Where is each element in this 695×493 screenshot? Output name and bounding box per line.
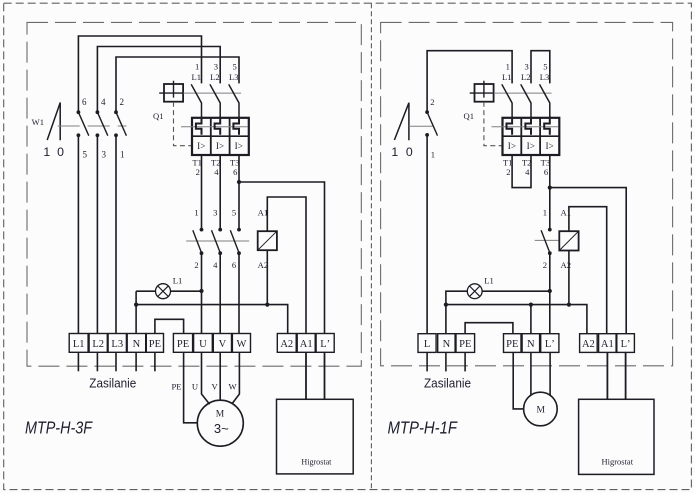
breaker Q1 input blade pole 2 (210, 84, 220, 118)
wire T3 down (right) (549, 155, 551, 230)
wire switch pole 2 to terminal strip (96, 135, 98, 333)
svg-text:4: 4 (101, 97, 106, 107)
wire coil A1 to terminal A1 (267, 197, 306, 334)
contactor pole 3 top terminal 5 (237, 228, 241, 232)
wire contactor to L' motor terminal (549, 253, 551, 334)
svg-text:6: 6 (82, 97, 87, 107)
wire lamp left (right panel) (446, 291, 467, 334)
terminal V (left motor strip) (213, 334, 231, 353)
svg-text:PE: PE (177, 339, 189, 350)
contactor top terminal 1 (right) (548, 228, 552, 232)
wire coil A2 down (right) (568, 251, 570, 305)
svg-text:L1: L1 (191, 72, 201, 82)
svg-text:2: 2 (430, 97, 434, 107)
breaker Q1 operator box (164, 84, 183, 102)
wire T3 junction to L' terminal (right) (550, 188, 626, 334)
wire coil A1 to terminal A1 (right) (569, 207, 607, 334)
wire supply stub (135, 352, 137, 371)
switch W1 pole 2 bottom terminal 3 (96, 133, 100, 137)
junction N rail start (right) (444, 303, 448, 307)
breaker input blade pole 3 (right) (540, 84, 550, 118)
svg-text:L3: L3 (540, 72, 550, 82)
contactor bottom terminal 2 (right) (548, 251, 552, 255)
terminal L&#700; (right control strip) (617, 334, 635, 353)
svg-text:2: 2 (120, 97, 125, 107)
switch W1 pole 3 blade (116, 112, 126, 136)
contactor blade (right) (541, 230, 550, 253)
breaker Q1 input blade pole 3 (229, 84, 239, 118)
junction coil A2 on rail (265, 303, 269, 307)
contactor coil box (right) (559, 231, 578, 250)
wire L' terminal to hygrostat (324, 352, 326, 399)
switch W1 pole 3 top terminal 2 (114, 110, 118, 114)
svg-text:4: 4 (525, 167, 530, 177)
svg-text:W: W (229, 382, 238, 392)
wire switch pole 1 to terminal strip (77, 135, 79, 333)
svg-text:W1: W1 (32, 117, 44, 127)
contactor linkage line (right) (535, 239, 559, 241)
wire L' to motor (right) (549, 352, 551, 395)
terminal U (left motor strip) (194, 334, 213, 353)
terminal PE (left supply strip) (146, 334, 163, 353)
contactor pole 1 top terminal 1 (200, 228, 204, 232)
terminal PE (right motor strip) (504, 334, 522, 353)
switch W1 pole 2 blade (97, 112, 107, 136)
svg-text:Q1: Q1 (463, 111, 474, 121)
terminal N (left supply strip) (127, 334, 146, 353)
wire supply stub (77, 352, 79, 371)
breaker thermal element pole 1 (right) (507, 119, 513, 135)
wire switch pole 3 to terminal strip (115, 135, 117, 333)
svg-text:M: M (536, 406, 545, 416)
breaker thermal element pole 3 (right) (544, 119, 550, 135)
svg-text:PE: PE (506, 339, 518, 350)
terminal N (right supply strip) (438, 334, 455, 353)
svg-text:3: 3 (213, 207, 217, 217)
breaker Q1 pole dividers (211, 118, 230, 155)
svg-text:Lʼ: Lʼ (545, 339, 555, 350)
terminal L2 (left supply strip) (89, 334, 107, 353)
terminal N (right motor strip) (522, 334, 540, 353)
svg-text:2: 2 (543, 260, 547, 270)
svg-text:2: 2 (194, 260, 198, 270)
breaker Q1 trip link dashed (right) (484, 102, 503, 146)
contactor pole 2 top terminal 3 (218, 228, 222, 232)
svg-text:5: 5 (233, 61, 237, 71)
terminal A2 (left control strip) (277, 334, 296, 353)
wire PE to motor (right) (513, 352, 524, 409)
svg-text:I>: I> (508, 141, 516, 151)
wire supply stub (96, 352, 98, 371)
svg-text:Higrostat: Higrostat (301, 456, 332, 466)
svg-text:L3: L3 (229, 72, 239, 82)
breaker Q1 input blade pole 1 (191, 84, 201, 118)
svg-text:6: 6 (233, 167, 238, 177)
motor M (right) (524, 392, 558, 426)
wire PE jumper group1 to group2 (right) (465, 323, 513, 334)
svg-text:I>: I> (545, 141, 553, 151)
svg-text:M: M (216, 410, 225, 420)
junction N / A2 rail (134, 303, 138, 307)
svg-text:PE: PE (171, 382, 181, 392)
svg-text:U: U (199, 339, 207, 350)
svg-text:0: 0 (406, 145, 413, 159)
svg-text:I>: I> (527, 141, 535, 151)
svg-text:MTP-H-3F: MTP-H-3F (25, 418, 93, 438)
breaker Q1 internal linkage (181, 126, 248, 128)
junction on T3 wire (right) (548, 186, 552, 190)
svg-text:5: 5 (232, 207, 236, 217)
svg-text:Q1: Q1 (153, 111, 164, 121)
wire A1 terminal to hygrostat (305, 352, 307, 399)
breaker Q1 operator box (right) (475, 84, 494, 102)
svg-text:I>: I> (216, 141, 224, 151)
wire jumper input 3 to 5 (531, 51, 550, 84)
svg-text:L1: L1 (484, 275, 494, 285)
svg-text:W: W (236, 339, 246, 350)
wire V to motor (219, 352, 221, 400)
wire feeder rail L3 (116, 57, 239, 112)
wire contactor pole 2 to terminal strip (219, 253, 221, 333)
breaker Q1 pole dividers (right) (521, 118, 540, 155)
switch linkage line (right) (409, 125, 433, 127)
svg-text:5: 5 (543, 61, 547, 71)
svg-text:1: 1 (391, 145, 398, 159)
junction motor N drop (529, 303, 533, 307)
terminal L (right supply strip) (418, 334, 436, 353)
svg-text:I>: I> (235, 141, 243, 151)
svg-text:4: 4 (214, 167, 219, 177)
svg-text:Zasilanie: Zasilanie (89, 376, 136, 390)
wire A1 terminal to hygrostat (right) (606, 352, 608, 399)
svg-text:A2: A2 (582, 339, 595, 350)
contactor coil diagonal (258, 231, 277, 250)
terminal PE (left motor strip) (173, 334, 192, 353)
switch W1 linkage line (58, 125, 127, 127)
breaker Q1 operator-to-blades linkage (183, 92, 241, 94)
lamp L1 (right) (467, 284, 482, 299)
wire feeder rail L1 (78, 36, 201, 112)
wire T3 junction to L' terminal (239, 182, 325, 334)
svg-text:1: 1 (120, 150, 125, 160)
breaker Q1 body (192, 118, 249, 155)
panel divider dashed line (370, 3, 372, 489)
breaker Q1 internal linkage (right) (492, 126, 559, 128)
wire supply stub (right) (426, 352, 428, 371)
contactor pole 2 bottom terminal 4 (218, 251, 222, 255)
breaker input blade pole 1 (right) (502, 84, 512, 118)
svg-text:4: 4 (213, 260, 218, 270)
svg-text:L2: L2 (92, 339, 104, 350)
wire Q1 T2 to contactor (219, 155, 221, 230)
wire L' terminal to hygrostat (right) (625, 352, 627, 399)
wire PE to motor (184, 352, 197, 423)
svg-text:1: 1 (43, 145, 50, 159)
wire contactor pole 3 to terminal strip (238, 253, 240, 333)
svg-text:PE: PE (149, 339, 161, 350)
switch W1 pole 1 blade (78, 112, 88, 136)
wire supply stub (154, 352, 156, 371)
terminal A1 (left control strip) (297, 334, 315, 353)
wire PE jumper group1 to group2 (155, 319, 184, 333)
svg-text:N: N (133, 339, 141, 350)
switch pole blade (right) (427, 112, 437, 136)
svg-text:3: 3 (525, 61, 529, 71)
breaker Q1 operator trip link (dashed) (174, 102, 193, 146)
left panel dashed enclosure (27, 22, 361, 366)
wire supply stub (115, 352, 117, 371)
switch W1 pole 3 bottom terminal 1 (114, 133, 118, 137)
svg-text:2: 2 (196, 167, 200, 177)
wire U to motor (202, 352, 210, 404)
svg-text:V: V (219, 339, 227, 350)
svg-text:A2: A2 (280, 339, 293, 350)
wire lamp right to phase U (171, 290, 202, 292)
wire contactor pole 1 to terminal strip (201, 253, 203, 333)
svg-text:Lʼ: Lʼ (621, 339, 631, 350)
junction coil A2 on N rail (right) (567, 303, 571, 307)
contactor pole 1 bottom terminal 2 (200, 251, 204, 255)
wire Q1 T1 to contactor (201, 155, 203, 230)
svg-text:PE: PE (459, 339, 471, 350)
lamp L1 (156, 284, 171, 299)
right panel dashed enclosure (381, 22, 673, 365)
wire N rail to motor N terminal (530, 305, 532, 334)
svg-text:3: 3 (214, 61, 218, 71)
breaker Q1 body (right) (503, 118, 560, 155)
svg-text:5: 5 (82, 150, 87, 160)
svg-text:Zasilanie: Zasilanie (424, 376, 471, 390)
breaker Q1 row divider (192, 135, 249, 137)
svg-text:L2: L2 (521, 72, 531, 82)
hygrostat box (right) (579, 399, 654, 474)
svg-text:2: 2 (506, 167, 510, 177)
svg-text:1: 1 (543, 207, 547, 217)
contactor pole 3 bottom terminal 6 (237, 251, 241, 255)
wire Q1 T3 to contactor (238, 155, 240, 230)
junction lamp on U phase (199, 289, 203, 293)
junction on T3 wire (237, 180, 241, 184)
svg-text:N: N (527, 339, 535, 350)
svg-text:Lʼ: Lʼ (320, 339, 330, 350)
terminal L3 (left supply strip) (108, 334, 126, 353)
contactor pole 2 blade (212, 230, 221, 253)
wire coil A2 down (266, 250, 268, 304)
breaker Q1 thermal element pole 1 (196, 119, 202, 135)
terminal PE (right supply strip) (456, 334, 475, 353)
contactor coil diagonal (right) (559, 231, 578, 250)
svg-text:1: 1 (431, 150, 435, 160)
breaker Q1 thermal element pole 2 (215, 119, 221, 135)
hygrostat box (left) (277, 399, 354, 474)
wire jumper output 2 to 4 (512, 155, 531, 188)
contactor linkage line (186, 240, 249, 242)
breaker Q1 operator cross (right) (470, 81, 494, 98)
terminal L&#700; (left control strip) (316, 334, 334, 353)
switch actuator handle (right) (394, 103, 409, 141)
breaker Q1 operator cross (159, 81, 183, 98)
svg-text:A1: A1 (601, 339, 614, 350)
terminal A2 (right control strip) (580, 334, 598, 353)
wire feeder L to breaker (427, 51, 512, 112)
switch W1 pole 1 top terminal 6 (77, 110, 81, 114)
switch W1 pole 1 bottom terminal 5 (77, 133, 81, 137)
switch pole bottom terminal 1 (right) (425, 133, 429, 137)
wire W to motor (232, 352, 239, 403)
contactor coil box (258, 231, 277, 250)
breaker Q1 row divider (right) (503, 135, 560, 137)
breaker Q1 thermal element pole 3 (233, 119, 239, 135)
svg-text:6: 6 (232, 260, 237, 270)
svg-text:1: 1 (195, 61, 199, 71)
contactor pole 1 blade (193, 230, 202, 253)
terminal L&#700; (right motor strip) (541, 334, 559, 353)
svg-text:U: U (192, 382, 199, 392)
svg-text:MTP-H-1F: MTP-H-1F (388, 418, 459, 438)
svg-text:N: N (443, 339, 451, 350)
wire A2 rail (136, 305, 288, 334)
wire feeder rail L2 (97, 47, 220, 113)
svg-text:A1: A1 (300, 339, 313, 350)
svg-text:3~: 3~ (214, 421, 229, 436)
terminal A1 (right control strip) (599, 334, 617, 353)
contactor pole 3 blade (230, 230, 239, 253)
svg-text:L2: L2 (210, 72, 220, 82)
svg-text:L1: L1 (502, 72, 512, 82)
breaker Q1 operator-to-blades linkage (right) (494, 92, 552, 94)
motor M 3~ (left) (197, 400, 243, 446)
breaker input blade pole 2 (right) (521, 84, 531, 118)
svg-text:I>: I> (197, 141, 205, 151)
terminal W (left motor strip) (232, 334, 250, 353)
wire supply stub (right) (445, 352, 447, 371)
switch W1 pole 2 top terminal 4 (96, 110, 100, 114)
svg-text:L1: L1 (73, 339, 85, 350)
breaker thermal element pole 2 (right) (525, 119, 531, 135)
svg-text:6: 6 (544, 167, 549, 177)
svg-text:L: L (424, 339, 430, 350)
wire switch to L terminal (426, 135, 428, 334)
wire lamp left (136, 290, 155, 292)
svg-text:V: V (211, 382, 218, 392)
svg-text:L3: L3 (111, 339, 123, 350)
svg-text:L1: L1 (173, 275, 183, 285)
junction lamp on phase (right) (548, 289, 552, 293)
wire N rail (right) (446, 305, 587, 334)
svg-text:0: 0 (57, 145, 64, 159)
wire lamp right to phase (right panel) (482, 290, 550, 292)
wire N to motor (right) (530, 352, 532, 395)
svg-text:1: 1 (194, 207, 198, 217)
wire supply stub (right) (464, 352, 466, 371)
svg-text:1: 1 (506, 61, 510, 71)
terminal L1 (left supply strip) (69, 334, 88, 353)
svg-text:3: 3 (101, 150, 106, 160)
svg-text:Higrostat: Higrostat (602, 456, 634, 466)
switch W1 actuator handle (47, 102, 60, 140)
wire N terminal up to lamp (135, 291, 137, 333)
switch pole top terminal 2 (right) (425, 110, 429, 114)
